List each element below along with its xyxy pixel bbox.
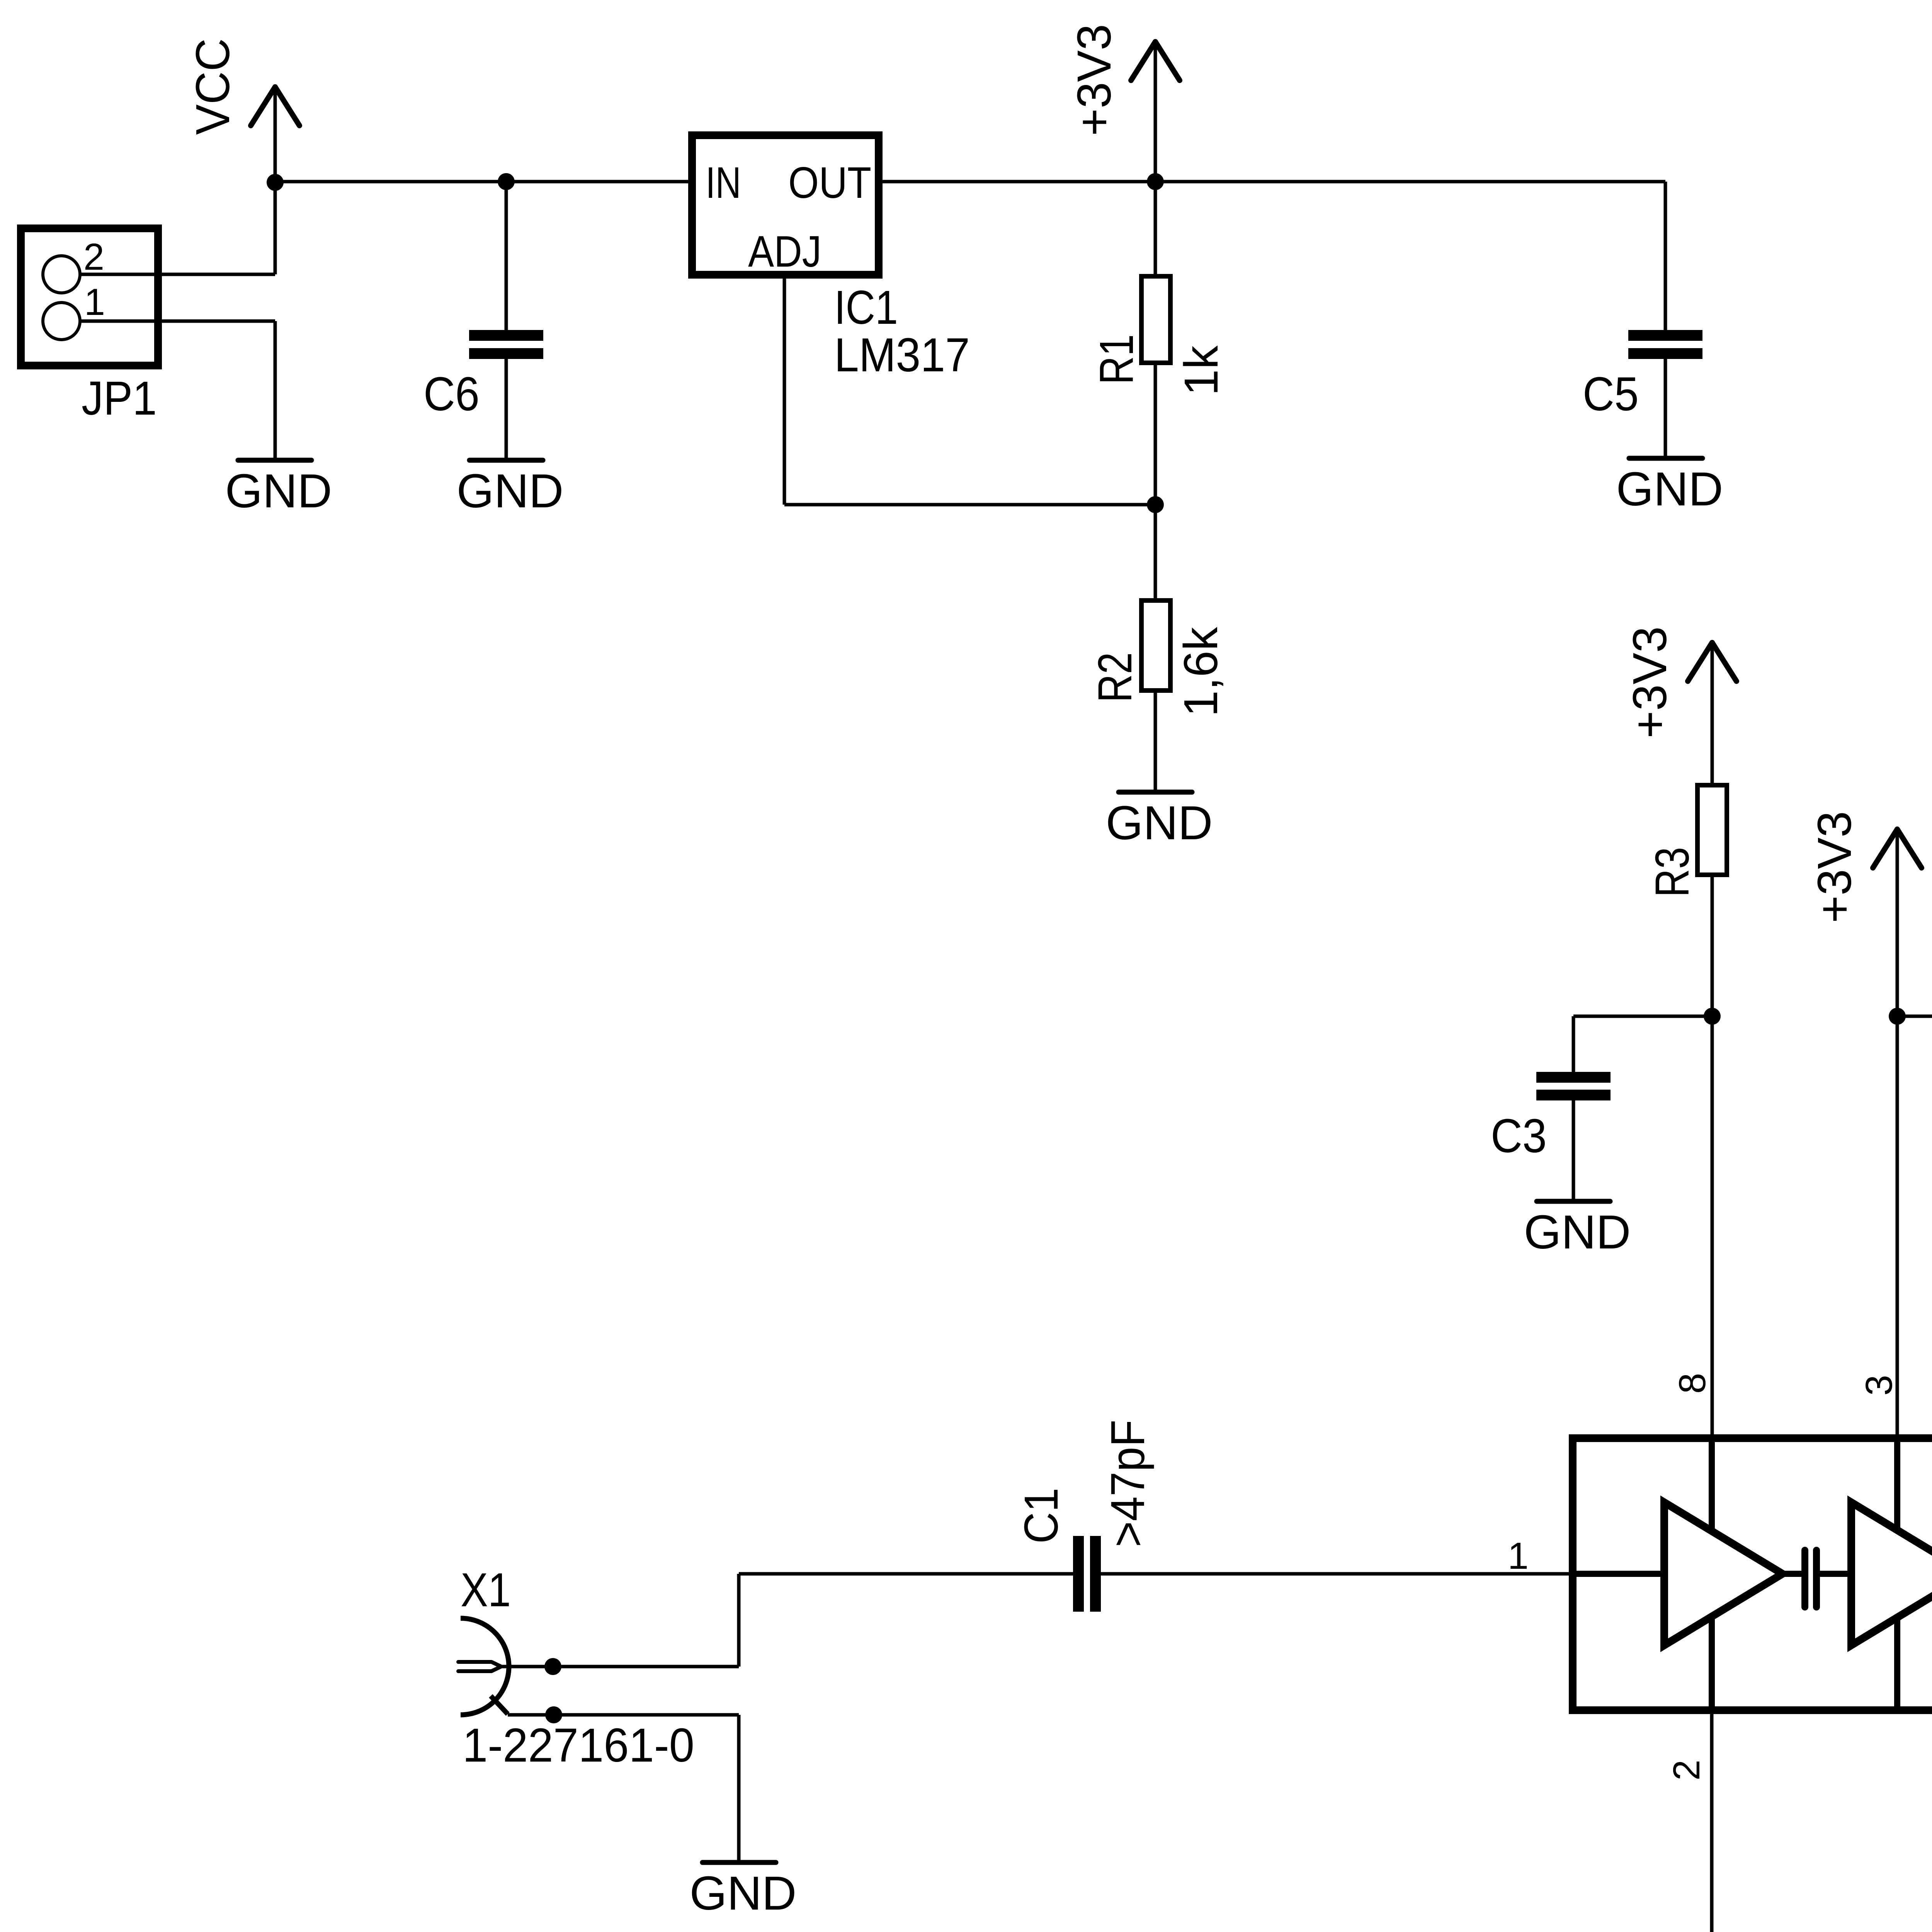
node X1 signal junction [544,1658,561,1675]
amplifier U$1 box [1573,1438,1932,1710]
wire main VCC rail [275,180,688,184]
svg-text:+3V3: +3V3 [1624,626,1677,738]
wire OUT rail [883,180,1665,184]
wire input line [739,1572,1073,1576]
wire C1 to U$1 pin1 [1101,1572,1569,1576]
svg-text:8: 8 [1671,1373,1713,1394]
wire U$1 internal rail pin3 [1894,1438,1900,1710]
capacitor C3 [1536,1077,1611,1095]
wire R3 bottom to pin8 [1711,877,1714,1434]
svg-text:GND: GND [1106,797,1213,850]
svg-text:1k: 1k [1175,345,1228,396]
wire R2 top [1154,505,1157,598]
ground JP1 [225,460,332,518]
svg-text:GND: GND [1524,1206,1631,1259]
svg-text:>47pF: >47pF [1102,1420,1155,1547]
resistor R1 [1141,276,1170,363]
svg-text:OUT: OUT [788,158,871,207]
regulator IC1 box [692,135,879,275]
resistor R2 [1141,600,1170,690]
svg-text:2: 2 [83,236,104,278]
svg-text:IN: IN [706,158,741,207]
svg-text:1: 1 [84,281,105,323]
node pin3 junction [1889,1008,1906,1025]
wire X1 shield [508,1713,739,1717]
svg-text:JP1: JP1 [82,372,157,425]
amplifier stage 1 [1664,1502,1782,1645]
svg-text:1: 1 [1508,1535,1529,1577]
amplifier stage 2 [1851,1502,1932,1645]
node VCC junction [267,174,284,191]
node OUT junction [1147,173,1164,190]
wire R3 top [1711,643,1714,783]
node C6 junction [498,173,515,190]
wire ADJ to divider [784,503,1155,507]
connector JP1 [21,228,158,366]
svg-text:GND: GND [690,1867,797,1920]
wire U$1 input segment [1577,1571,1664,1577]
svg-text:GND: GND [225,465,332,518]
ground C3 [1524,1201,1631,1259]
wire R2 bottom [1154,693,1157,790]
wire +3V3 stem pin3 [1896,829,1899,1016]
ground X1 [690,1862,797,1920]
wire R1 bottom [1154,365,1157,505]
wire VCC to JP1 pin2 [274,182,277,274]
wire JP1 pin1 [80,320,275,323]
svg-text:C1: C1 [1015,1488,1068,1544]
wire ADJ stub [783,279,786,505]
wire R1 top [1154,182,1157,274]
wire JP1 pin2 [80,273,275,276]
supply +3V3 b arrow [1688,643,1736,681]
svg-text:R2: R2 [1089,652,1142,702]
capacitor C6 [469,335,543,354]
wire C6 bottom [505,359,508,458]
wire X1 signal riser [737,1574,741,1667]
svg-text:LM317: LM317 [834,329,970,382]
wire C3 top [1572,1016,1575,1072]
wire C3 bottom [1572,1100,1575,1199]
wire X1 shield to ground [737,1715,741,1860]
node R3/C3 junction [1704,1008,1721,1025]
svg-text:ADJ: ADJ [748,227,821,276]
wire U$1 internal rail pin2/8 [1709,1438,1715,1710]
capacitor interstage 1 [1805,1550,1816,1607]
svg-text:GND: GND [457,465,564,518]
ground C5 [1616,458,1723,516]
svg-text:1,6k: 1,6k [1175,627,1228,717]
node X1 shield junction [545,1706,562,1723]
wire pin3 to U$1 [1896,1016,1899,1434]
wire X1 shield tap [491,1696,508,1714]
svg-text:C6: C6 [423,368,480,421]
supply VCC1 arrow [251,87,299,126]
svg-text:C3: C3 [1491,1110,1547,1163]
wire to C4 [1897,1015,1932,1018]
connector X1 [458,1618,509,1715]
svg-text:2: 2 [1665,1760,1708,1781]
wire X1 signal [502,1665,739,1668]
ground R2 [1106,792,1213,850]
svg-text:1-227161-0: 1-227161-0 [463,1719,694,1772]
wire +3V3 stem [1154,42,1157,182]
wire to C3 [1573,1015,1712,1018]
svg-text:+3V3: +3V3 [1068,24,1121,136]
svg-text:VCC: VCC [187,38,240,135]
wire pin2 to ground [1710,1714,1714,1932]
supply +3V3 c arrow [1873,829,1922,868]
wire JP1 pin1 to ground [274,321,277,458]
capacitor C1 [1078,1536,1095,1612]
svg-text:R3: R3 [1646,847,1699,897]
wire C5 bottom [1664,359,1667,456]
wire C5 top [1664,182,1667,330]
svg-text:IC1: IC1 [834,281,898,334]
svg-text:R1: R1 [1090,334,1143,384]
svg-text:GND: GND [1616,463,1723,516]
node divider junction [1147,496,1164,513]
capacitor C5 [1628,335,1702,354]
supply +3V3 a arrow [1131,42,1180,80]
svg-text:+3V3: +3V3 [1808,811,1861,923]
svg-text:C5: C5 [1583,368,1639,421]
ground C6 [457,460,564,518]
wire C6 top [505,182,508,330]
svg-text:3: 3 [1858,1375,1900,1396]
svg-text:X1: X1 [461,1564,511,1617]
wire stage1 out [1782,1571,1801,1577]
resistor R3 [1697,785,1727,875]
wire to stage2 [1820,1571,1851,1577]
wire VCC stem [274,87,277,182]
